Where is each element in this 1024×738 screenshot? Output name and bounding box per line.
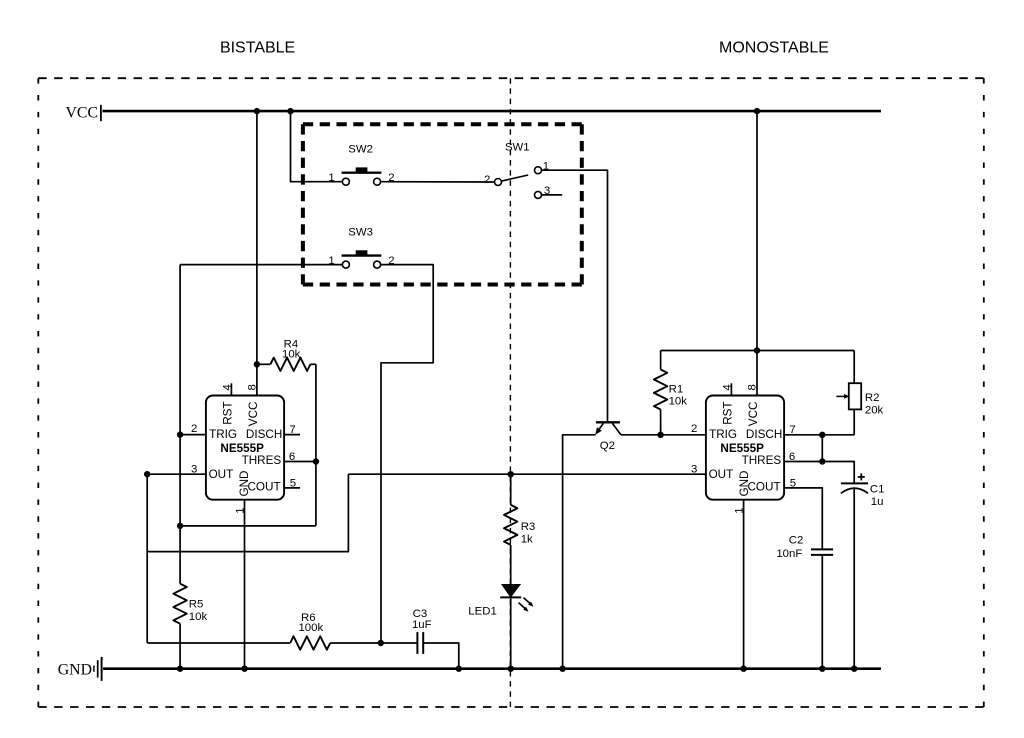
wire output row to U2 OUT — [348, 473, 706, 475]
wire R3 to LED1 anode — [510, 545, 512, 585]
transistor Q2 — [595, 422, 621, 435]
svg-text:MONOSTABLE: MONOSTABLE — [719, 40, 829, 57]
svg-text:3: 3 — [191, 463, 197, 475]
svg-text:7: 7 — [289, 424, 295, 436]
svg-text:VCC: VCC — [66, 105, 98, 122]
wire VCC down to R1/R2 rail and U2 pin 8 — [756, 111, 758, 395]
wire stub U1 pin 7 DISCH — [284, 434, 300, 436]
svg-text:OUT: OUT — [209, 468, 234, 481]
junction GND rail / U2 pin 1 — [740, 666, 746, 672]
wire SW2 pin 2 to SW1 pin 2 — [381, 181, 495, 183]
wire U1 pin 1 GND to rail — [244, 500, 246, 669]
svg-text:1uF: 1uF — [412, 619, 432, 631]
svg-text:4: 4 — [221, 384, 233, 390]
wire R6 left lead — [147, 642, 290, 644]
svg-text:NE555P: NE555P — [720, 442, 764, 455]
capacitor C2 — [811, 549, 833, 555]
wire TRIG stub U1 pin 2 — [180, 434, 206, 436]
junction GND rail / C2 — [819, 666, 825, 672]
svg-text:C1: C1 — [870, 483, 885, 495]
svg-text:NE555P: NE555P — [220, 442, 264, 455]
wire THRES stub U1 pin 6 — [284, 461, 316, 463]
svg-text:20k: 20k — [865, 404, 884, 416]
wire LED1 cathode to GND rail — [510, 598, 512, 668]
resistor R3 — [504, 505, 517, 545]
svg-text:8: 8 — [747, 384, 759, 390]
wire OUT stub U1 pin 3 — [147, 473, 206, 475]
junction DISCH U2 node — [819, 432, 825, 438]
svg-text:3: 3 — [544, 185, 550, 197]
svg-text:2: 2 — [191, 423, 197, 435]
svg-text:1: 1 — [328, 255, 334, 267]
svg-text:2: 2 — [484, 174, 490, 186]
svg-text:BISTABLE: BISTABLE — [220, 40, 295, 57]
capacitor C1 (polarized) — [841, 473, 868, 493]
svg-text:TRIG: TRIG — [709, 428, 737, 441]
wire OUT net down to R6 — [146, 474, 148, 643]
wire stub U1 pin 4 RST — [230, 383, 232, 395]
svg-text:6: 6 — [289, 451, 295, 463]
junction GND rail / U1 pin 1 — [241, 666, 247, 672]
LED LED1 — [500, 585, 533, 612]
svg-text:10k: 10k — [669, 396, 688, 408]
svg-text:THRES: THRES — [242, 454, 282, 467]
svg-text:R1: R1 — [669, 383, 684, 395]
junction R1 bottom / TRIG U2 node — [657, 432, 663, 438]
junction THRES U2 node — [819, 458, 825, 464]
wire C2 bottom to GND rail — [821, 555, 823, 669]
resistor R4 — [270, 358, 310, 371]
wire U2 pin 1 GND to rail — [743, 500, 745, 669]
svg-text:1k: 1k — [521, 533, 533, 545]
svg-text:1: 1 — [543, 161, 549, 173]
svg-text:1: 1 — [234, 507, 246, 513]
junction THRES U1 node — [313, 458, 319, 464]
svg-text:1: 1 — [733, 507, 745, 513]
wire SW1 pin 1 to Q2 base — [542, 170, 608, 422]
svg-text:C3: C3 — [413, 608, 428, 620]
wire U2 COUT pin 5 to C2 — [784, 488, 822, 550]
svg-text:C2: C2 — [789, 534, 804, 546]
svg-text:100k: 100k — [298, 622, 323, 634]
svg-text:DISCH: DISCH — [246, 428, 282, 441]
svg-text:2: 2 — [691, 423, 697, 435]
junction GND rail / LED1 — [508, 666, 514, 672]
svg-text:1: 1 — [328, 172, 334, 184]
wire Q2 collector to U2 TRIG pin 2 — [621, 434, 706, 436]
svg-text:VCC: VCC — [747, 402, 760, 427]
junction VCC / R1-R2 node — [754, 347, 760, 353]
svg-text:VCC: VCC — [247, 402, 260, 427]
svg-text:2: 2 — [388, 255, 394, 267]
svg-text:R2: R2 — [865, 392, 880, 404]
switch SW3 push button — [342, 250, 382, 268]
switch SW1 (SPDT) — [495, 167, 542, 199]
junction R4 left / U1 pin 8 — [254, 361, 260, 367]
svg-text:COUT: COUT — [747, 480, 780, 493]
wire R6 to C3 — [330, 642, 417, 644]
svg-text:2: 2 — [388, 172, 394, 184]
wire C1 bottom to GND rail — [853, 489, 855, 669]
wire stub U2 pin 4 RST — [730, 383, 732, 395]
wire output node down to R3 — [510, 474, 512, 505]
junction OUT U1 node — [144, 471, 150, 477]
svg-text:TRIG: TRIG — [209, 428, 237, 441]
VCC rail — [103, 110, 882, 113]
resistor R6 — [290, 636, 330, 649]
wire VCC down to SW2 pin 1 — [291, 111, 343, 182]
junction TRIG/THRES feedback node — [177, 523, 183, 529]
wire R1 top to R2 top — [661, 350, 855, 352]
svg-text:OUT: OUT — [709, 468, 734, 481]
svg-text:5: 5 — [790, 478, 796, 490]
wire stub SW1 pin 3 — [540, 194, 562, 196]
wire SW3 pin 2 down to R6/C3 node — [381, 265, 434, 643]
svg-text:SW1: SW1 — [505, 141, 530, 153]
svg-text:LED1: LED1 — [468, 606, 497, 618]
wire U2 THRES pin 6 to C1 — [784, 462, 854, 484]
svg-text:R5: R5 — [189, 599, 204, 611]
wire R2 top lead — [853, 351, 855, 384]
svg-text:1u: 1u — [871, 496, 884, 508]
svg-text:R3: R3 — [521, 521, 536, 533]
capacitor C3 — [417, 632, 423, 654]
junction VCC rail / monostable branch — [754, 108, 760, 114]
svg-text:6: 6 — [789, 451, 795, 463]
section divider between bistable and monostable — [509, 78, 511, 707]
svg-text:8: 8 — [247, 384, 259, 390]
switch SW2 push button — [342, 167, 382, 185]
svg-text:5: 5 — [290, 478, 296, 490]
outer sheet dashed boundary — [38, 77, 984, 79]
junction GND rail / C3 — [456, 666, 462, 672]
svg-text:SW2: SW2 — [348, 144, 373, 156]
resistor R5 — [173, 584, 186, 624]
timer IC U1 NE555P body — [206, 396, 284, 500]
junction VCC rail / R4 branch — [254, 108, 260, 114]
junction GND rail / C1 — [851, 666, 857, 672]
svg-text:Q2: Q2 — [600, 440, 615, 452]
svg-text:10k: 10k — [282, 349, 301, 361]
timer IC U2 NE555P body — [706, 396, 784, 500]
svg-text:4: 4 — [721, 384, 733, 390]
wire VCC to R4 left / pin 8 of U1 — [256, 111, 258, 395]
svg-text:COUT: COUT — [247, 480, 280, 493]
wire U2 DISCH pin 7 to R2 bottom — [784, 434, 854, 436]
junction VCC rail / SW2 branch — [287, 108, 293, 114]
wire C3 right to GND rail — [423, 643, 459, 669]
junction TRIG U1 node — [177, 431, 183, 437]
wire TRIG net vertical (SW3 to R5) — [179, 265, 181, 584]
svg-text:GND: GND — [58, 662, 92, 679]
svg-text:RST: RST — [222, 401, 235, 424]
wire SW3 pin 1 to TRIG net — [180, 264, 342, 266]
svg-text:3: 3 — [691, 463, 697, 475]
wire R1 leads — [660, 351, 662, 370]
GND rail — [103, 667, 881, 670]
wire R4 right down to THRES net — [315, 364, 317, 526]
svg-text:SW3: SW3 — [348, 227, 373, 239]
wire DISCH to THRES link — [821, 435, 823, 462]
wire stub U1 pin 5 COUT — [284, 487, 300, 489]
svg-text:7: 7 — [789, 424, 795, 436]
wire jog below U1 — [147, 474, 348, 551]
wire Q2 emitter to GND rail — [563, 435, 596, 669]
potentiometer R2 — [836, 383, 861, 409]
wire THRES net to TRIG net — [180, 525, 316, 527]
junction output row / LED branch — [508, 471, 514, 477]
svg-text:10nF: 10nF — [776, 548, 802, 560]
junction GND rail / R5 — [177, 666, 183, 672]
resistor R1 — [654, 370, 667, 410]
svg-text:RST: RST — [722, 401, 735, 424]
svg-text:DISCH: DISCH — [746, 428, 782, 441]
svg-text:THRES: THRES — [742, 454, 782, 467]
svg-text:10k: 10k — [189, 611, 208, 623]
junction GND rail / Q2 emitter — [559, 666, 565, 672]
switch group dashed box — [303, 122, 582, 126]
junction R6 / C3 / SW3 node — [378, 640, 384, 646]
